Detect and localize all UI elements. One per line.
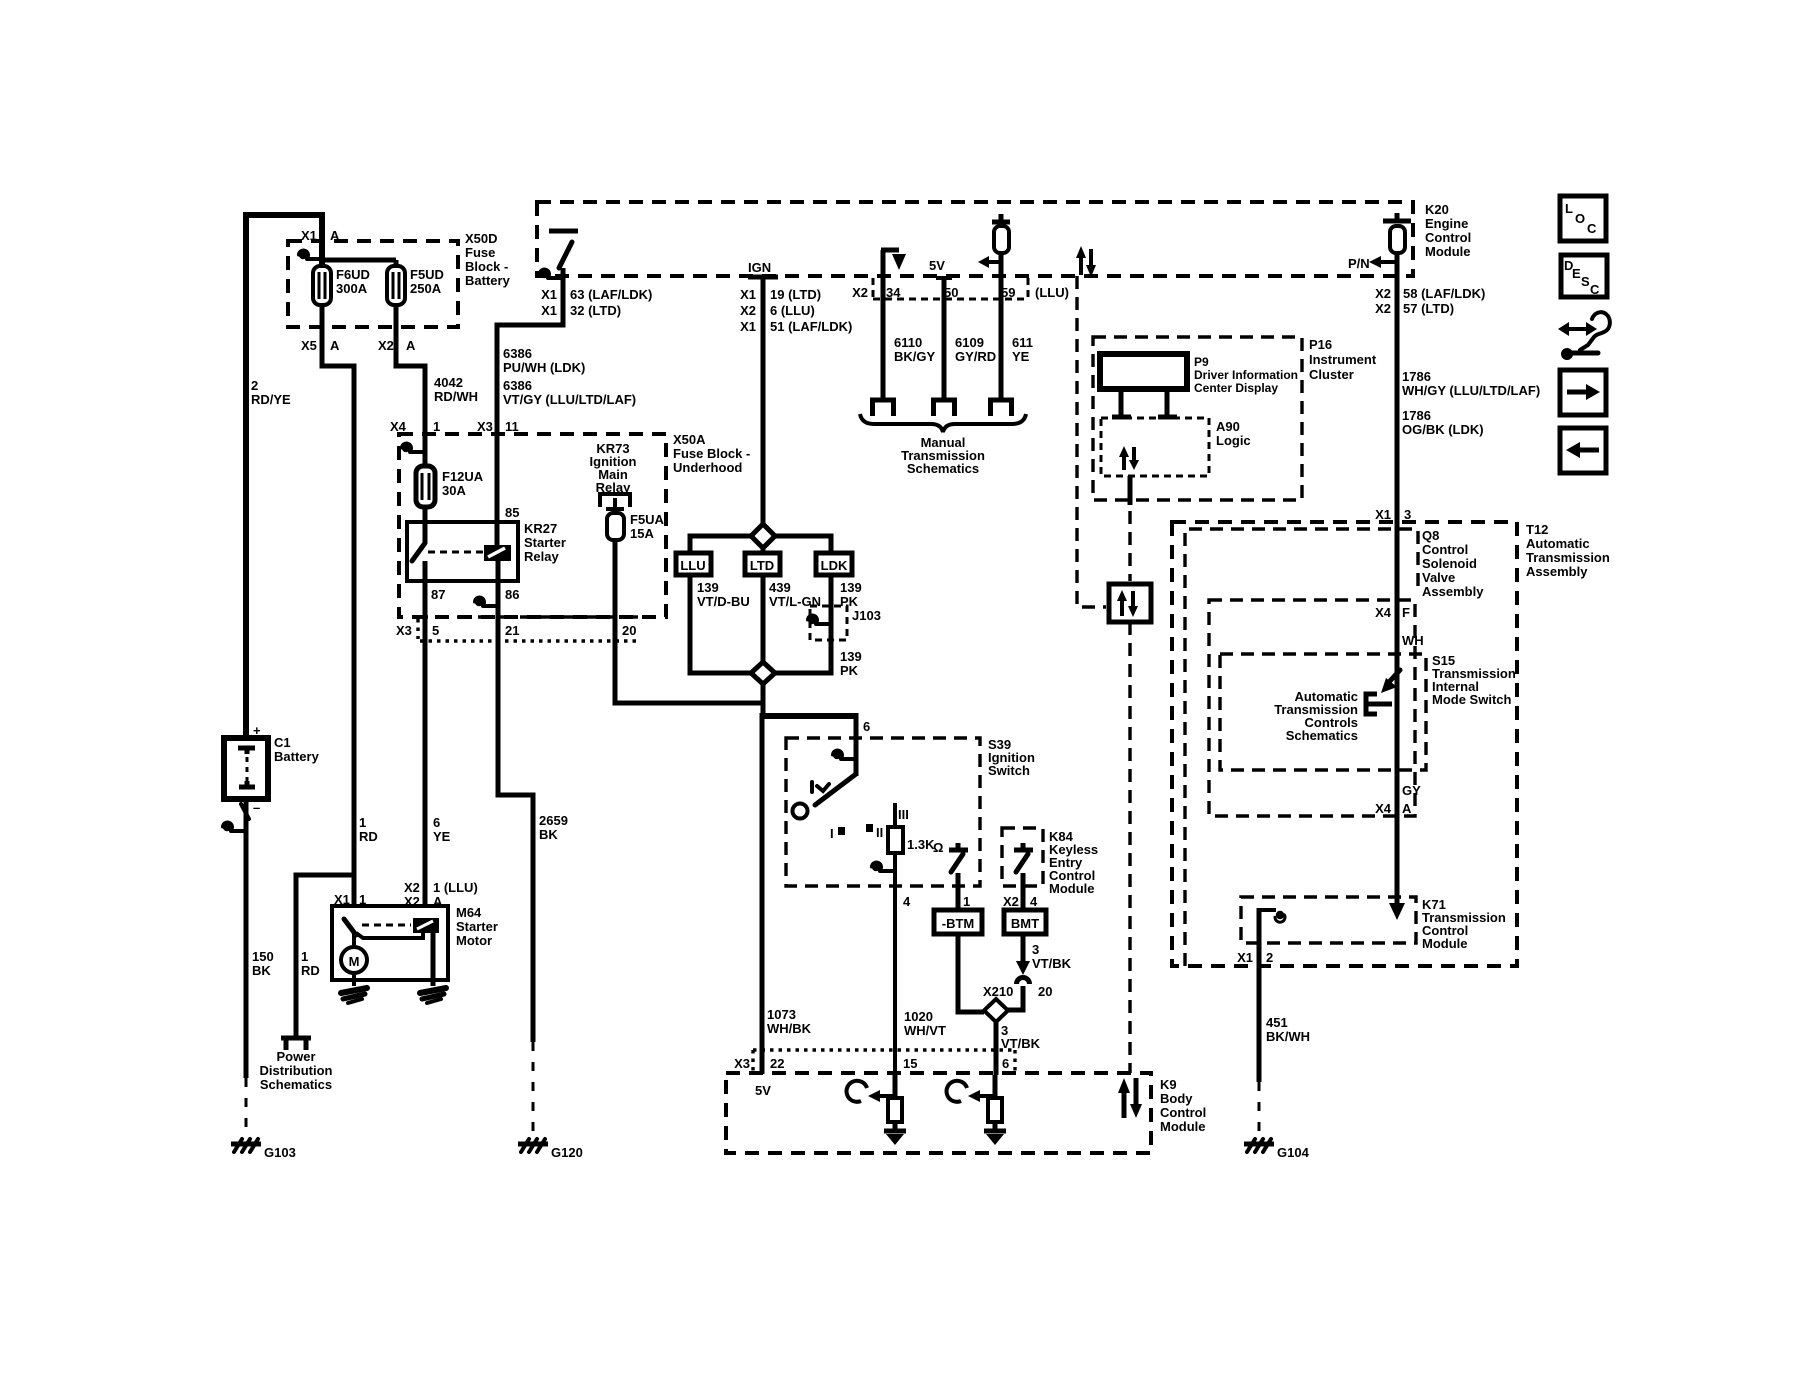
ground G120 (532, 1042, 535, 1137)
svg-text:WH: WH (1402, 633, 1424, 648)
starter solenoid output ground (431, 933, 436, 986)
terminal BMT (1004, 910, 1046, 934)
svg-text:X2: X2 (1003, 894, 1019, 909)
svg-text:A: A (1402, 801, 1412, 816)
svg-text:Solenoid: Solenoid (1422, 556, 1477, 571)
svg-text:Power: Power (276, 1049, 315, 1064)
svg-text:Schematics: Schematics (1286, 728, 1358, 743)
svg-text:A: A (433, 894, 443, 909)
switch S39 dashed box (786, 738, 980, 886)
svg-text:WH/VT: WH/VT (904, 1023, 946, 1038)
svg-text:G104: G104 (1277, 1145, 1310, 1160)
module P16 instrument cluster dashed box (1093, 337, 1302, 500)
svg-text:YE: YE (1012, 349, 1030, 364)
off-page bracket power distribution (281, 1038, 311, 1050)
svg-text:85: 85 (505, 505, 519, 520)
pin 59 left arrow (986, 260, 1001, 264)
svg-text:A90: A90 (1216, 419, 1240, 434)
svg-text:Cluster: Cluster (1309, 367, 1354, 382)
branch wires to fuses (690, 536, 751, 553)
svg-text:250A: 250A (410, 281, 442, 296)
svg-text:X1: X1 (740, 319, 756, 334)
wire 6 YE pin87 to starter solenoid (423, 561, 428, 908)
svg-text:III: III (898, 807, 909, 822)
svg-text:1: 1 (359, 815, 366, 830)
wire 611 YE pin 59 (999, 253, 1004, 399)
svg-text:21: 21 (505, 623, 519, 638)
BCM pin6 input element (977, 1094, 995, 1098)
svg-text:Fuse: Fuse (465, 245, 495, 260)
S39 resistor 1.3K (893, 803, 897, 827)
dashed wire (LLU) path from ECM (1077, 276, 1106, 607)
fuse block X50D dashed box (288, 241, 458, 327)
svg-text:150: 150 (252, 949, 274, 964)
svg-text:34: 34 (886, 285, 901, 300)
svg-text:1: 1 (359, 892, 366, 907)
svg-text:VT/BK: VT/BK (1001, 1036, 1041, 1051)
svg-text:X1: X1 (541, 287, 557, 302)
relay KR27 switch blade (412, 543, 425, 561)
ECM pin 34 elbow arrow (881, 250, 899, 277)
terminal -BTM (934, 910, 982, 934)
wire battery feed top horizontal (246, 212, 322, 218)
fuse block X50A dashed box (399, 434, 666, 617)
svg-text:611: 611 (1012, 335, 1033, 350)
ECM internal switch (549, 229, 578, 234)
svg-text:C1: C1 (274, 735, 291, 750)
svg-text:X50A: X50A (673, 432, 706, 447)
wire 6386 coil feed from ECM (497, 268, 563, 545)
svg-text:G120: G120 (551, 1145, 583, 1160)
fuse F5UD 250A (387, 266, 405, 305)
svg-text:6109: 6109 (955, 335, 984, 350)
splice curl at X1 feed (299, 250, 323, 259)
svg-text:F6UD: F6UD (336, 267, 370, 282)
svg-text:X3: X3 (477, 419, 493, 434)
svg-text:+: + (253, 723, 261, 738)
splice diamond X210 (984, 999, 1008, 1022)
S15 contact bracket (1366, 694, 1377, 714)
svg-text:Ω: Ω (933, 840, 943, 855)
svg-text:5: 5 (432, 623, 439, 638)
ECM pin 59 fuse element (992, 214, 1010, 222)
svg-text:1786: 1786 (1402, 369, 1431, 384)
relay KR27 contact dashed (428, 551, 484, 554)
svg-text:3: 3 (1404, 507, 1411, 522)
svg-text:1073: 1073 (767, 1007, 796, 1022)
svg-text:Automatic: Automatic (1526, 536, 1590, 551)
BCM page arrows (1124, 1078, 1136, 1118)
junction diamond upper (751, 524, 775, 548)
svg-text:51 (LAF/LDK): 51 (LAF/LDK) (770, 319, 852, 334)
svg-text:32 (LTD): 32 (LTD) (570, 303, 621, 318)
svg-text:OG/BK (LDK): OG/BK (LDK) (1402, 422, 1484, 437)
svg-text:G103: G103 (264, 1145, 296, 1160)
svg-text:6: 6 (433, 815, 440, 830)
svg-text:VT/BK: VT/BK (1032, 956, 1072, 971)
wire from -BTM to splice (958, 934, 984, 1012)
svg-text:LLU: LLU (680, 558, 705, 573)
svg-text:57 (LTD): 57 (LTD) (1403, 301, 1454, 316)
svg-text:X1: X1 (541, 303, 557, 318)
branch to power distribution schematics (296, 875, 354, 1036)
svg-text:M64: M64 (456, 905, 482, 920)
svg-text:(LLU): (LLU) (1035, 285, 1069, 300)
X4 connector dashed box (1209, 600, 1415, 816)
svg-text:YE: YE (433, 829, 451, 844)
svg-text:Switch: Switch (988, 763, 1030, 778)
svg-text:X2: X2 (378, 338, 394, 353)
module T12 automatic transmission assembly dashed box (1172, 522, 1517, 966)
svg-text:BK: BK (252, 963, 271, 978)
svg-text:15A: 15A (630, 526, 654, 541)
svg-text:RD: RD (359, 829, 378, 844)
svg-text:2659: 2659 (539, 813, 568, 828)
wire 6 into ignition switch (854, 713, 859, 776)
module A90 logic dashed box (1101, 418, 1209, 476)
K71 ground output with curl (1257, 908, 1262, 1082)
svg-text:139: 139 (840, 580, 862, 595)
svg-text:Mode Switch: Mode Switch (1432, 692, 1512, 707)
wire F5UA output to junction (615, 540, 762, 703)
switch S15 transmission internal mode switch dashed box (1220, 654, 1426, 770)
svg-text:C: C (1590, 282, 1600, 297)
svg-text:Body: Body (1160, 1091, 1193, 1106)
brace manual transmission schematics (860, 414, 1026, 432)
serial data link box with arrows (1109, 584, 1151, 622)
relay KR73 coil symbol (600, 494, 630, 507)
fuse LTD (745, 553, 780, 575)
svg-text:X3: X3 (734, 1056, 750, 1071)
svg-text:20: 20 (622, 623, 636, 638)
svg-text:Starter: Starter (524, 535, 566, 550)
svg-text:RD: RD (301, 963, 320, 978)
svg-text:Distribution: Distribution (260, 1063, 333, 1078)
wire 86 to ground jog (498, 561, 533, 1042)
svg-text:GY: GY (1402, 783, 1421, 798)
starter solenoid contact box (413, 918, 439, 933)
display P9 driver information center (1100, 354, 1187, 389)
svg-text:K20: K20 (1425, 202, 1449, 217)
svg-text:F: F (1402, 605, 1410, 620)
junction J103 (810, 606, 847, 640)
svg-text:6: 6 (1002, 1056, 1009, 1071)
svg-text:X2: X2 (1375, 286, 1391, 301)
svg-text:Q8: Q8 (1422, 528, 1439, 543)
relay KR27 coil (484, 545, 511, 561)
svg-text:X1: X1 (1237, 950, 1253, 965)
module K20 engine control module dashed box (537, 202, 1413, 276)
wire jumper to F5UD (322, 258, 396, 263)
svg-text:Driver Information: Driver Information (1194, 368, 1298, 382)
svg-text:63 (LAF/LDK): 63 (LAF/LDK) (570, 287, 652, 302)
battery C1 (224, 738, 268, 799)
svg-text:–: – (253, 800, 260, 815)
svg-text:A: A (406, 338, 416, 353)
svg-text:L: L (1565, 201, 1573, 216)
module K9 body control module dashed box (726, 1073, 1151, 1153)
svg-text:X2: X2 (404, 880, 420, 895)
svg-text:PU/WH (LDK): PU/WH (LDK) (503, 360, 585, 375)
svg-text:6386: 6386 (503, 346, 532, 361)
svg-text:86: 86 (505, 587, 519, 602)
svg-text:X5: X5 (301, 338, 317, 353)
svg-text:20: 20 (1038, 984, 1052, 999)
svg-text:30A: 30A (442, 483, 466, 498)
starter motor M circle (341, 947, 367, 973)
connector sub-row X2 34 50 59 (LLU) (873, 278, 1028, 299)
svg-text:5V: 5V (755, 1083, 771, 1098)
K84 BMT switch (1014, 843, 1033, 850)
S15 wiper blade and arrow (1395, 660, 1400, 672)
svg-text:Logic: Logic (1216, 433, 1251, 448)
svg-text:X210: X210 (983, 984, 1013, 999)
svg-text:LDK: LDK (821, 558, 848, 573)
svg-text:Starter: Starter (456, 919, 498, 934)
wire 3 VT/BK from BMT (1021, 934, 1026, 961)
module Q8 control solenoid valve assembly dashed box (1185, 529, 1418, 966)
wire 139 PK (775, 575, 831, 673)
svg-text:Fuse Block -: Fuse Block - (673, 446, 750, 461)
svg-text:1: 1 (963, 894, 970, 909)
svg-text:RD/WH: RD/WH (434, 389, 478, 404)
svg-text:VT/D-BU: VT/D-BU (697, 594, 750, 609)
svg-text:PK: PK (840, 594, 859, 609)
svg-text:Control: Control (1425, 230, 1471, 245)
svg-text:15: 15 (903, 1056, 917, 1071)
starter motor ground (352, 973, 356, 986)
splice curl on F12UA feed (402, 443, 426, 452)
fuse F5UA 15A (607, 513, 624, 540)
svg-text:Center Display: Center Display (1194, 381, 1278, 395)
svg-text:Engine: Engine (1425, 216, 1468, 231)
starter contact dashed (362, 924, 411, 927)
svg-text:M: M (349, 954, 360, 969)
wire X1-A feed into fuse block (319, 212, 325, 267)
fuse F6UD 300A (313, 266, 331, 305)
svg-text:6386: 6386 (503, 378, 532, 393)
svg-text:BK/GY: BK/GY (894, 349, 936, 364)
arrow into K71 (1389, 903, 1405, 920)
svg-text:X2: X2 (1375, 301, 1391, 316)
svg-text:S: S (1581, 274, 1590, 289)
svg-text:BMT: BMT (1011, 916, 1039, 931)
S39 BTM switch (949, 843, 968, 850)
icon DESC button (1561, 255, 1607, 297)
svg-text:Schematics: Schematics (260, 1077, 332, 1092)
svg-text:KR27: KR27 (524, 521, 557, 536)
svg-text:E: E (1572, 266, 1581, 281)
svg-text:T12: T12 (1526, 522, 1548, 537)
battery negative wire 150 BK (244, 799, 249, 1078)
relay KR27 box (407, 522, 518, 581)
fuse F12UA 30A (416, 466, 435, 507)
svg-text:6: 6 (863, 719, 870, 734)
svg-text:4042: 4042 (434, 375, 463, 390)
svg-text:2: 2 (1266, 950, 1273, 965)
svg-text:4: 4 (1030, 894, 1038, 909)
svg-text:300A: 300A (336, 281, 368, 296)
module K71 transmission control module dashed box (1241, 897, 1416, 943)
junction diamond lower (751, 662, 775, 684)
svg-text:RD/YE: RD/YE (251, 392, 291, 407)
ground G104 (1258, 1082, 1261, 1137)
wire 139 VT/D-BU (690, 575, 751, 673)
svg-text:1: 1 (433, 419, 440, 434)
svg-text:VT/GY (LLU/LTD/LAF): VT/GY (LLU/LTD/LAF) (503, 392, 636, 407)
svg-text:X2: X2 (404, 894, 420, 909)
svg-text:O: O (1575, 211, 1585, 226)
svg-text:Module: Module (1049, 881, 1095, 896)
svg-text:5V: 5V (929, 258, 945, 273)
icon back arrow button (1560, 428, 1606, 473)
relay KR27 feed into box (423, 507, 428, 543)
svg-text:Schematics: Schematics (907, 461, 979, 476)
svg-text:C: C (1587, 221, 1597, 236)
wire 6109 GY/RD pin 50 (942, 278, 947, 399)
svg-text:Module: Module (1425, 244, 1471, 259)
svg-text:Control: Control (1160, 1105, 1206, 1120)
svg-text:50: 50 (944, 285, 958, 300)
svg-text:BK/WH: BK/WH (1266, 1029, 1310, 1044)
wire 1 RD from F6UD to starter (322, 305, 354, 908)
ECM page arrows (1081, 249, 1091, 275)
svg-text:Underhood: Underhood (673, 460, 742, 475)
svg-text:F5UD: F5UD (410, 267, 444, 282)
svg-text:P/N: P/N (1348, 256, 1370, 271)
svg-text:LTD: LTD (750, 558, 774, 573)
S39 rotary blade (815, 774, 856, 805)
svg-text:IGN: IGN (748, 260, 771, 275)
icon LOC button (1560, 196, 1606, 241)
svg-text:F5UA: F5UA (630, 512, 665, 527)
svg-text:Block -: Block - (465, 259, 508, 274)
svg-text:P16: P16 (1309, 337, 1332, 352)
svg-text:6 (LLU): 6 (LLU) (770, 303, 815, 318)
wire 1786 trans range signal (1395, 253, 1400, 906)
svg-text:Motor: Motor (456, 933, 492, 948)
svg-text:X1: X1 (334, 892, 350, 907)
wire 3 VT/BK to BCM (994, 1022, 999, 1075)
svg-text:Relay: Relay (596, 480, 631, 495)
connector row X3 5 21 20 (415, 615, 641, 618)
svg-text:GY/RD: GY/RD (955, 349, 996, 364)
svg-text:6110: 6110 (894, 335, 922, 350)
A90 page arrows (1124, 447, 1134, 470)
svg-text:Assembly: Assembly (1422, 584, 1484, 599)
svg-text:87: 87 (431, 587, 445, 602)
svg-text:X2: X2 (852, 285, 868, 300)
svg-text:Battery: Battery (274, 749, 320, 764)
svg-text:59: 59 (1001, 285, 1015, 300)
fuse LLU (676, 553, 711, 575)
icon trace squiggle (1565, 327, 1590, 331)
svg-text:J103: J103 (852, 608, 881, 623)
wire IGN feed (761, 277, 766, 526)
svg-text:X50D: X50D (465, 231, 498, 246)
svg-text:2: 2 (251, 378, 258, 393)
svg-text:58 (LAF/LDK): 58 (LAF/LDK) (1403, 286, 1485, 301)
svg-text:4: 4 (903, 894, 911, 909)
svg-text:BK: BK (539, 827, 558, 842)
svg-text:11: 11 (505, 419, 519, 434)
svg-text:Valve: Valve (1422, 570, 1455, 585)
svg-text:Battery: Battery (465, 273, 511, 288)
svg-text:K9: K9 (1160, 1077, 1177, 1092)
wire 6110 BK/GY pin 34 (881, 277, 886, 399)
fuse LDK (816, 553, 852, 575)
svg-text:1786: 1786 (1402, 408, 1431, 423)
svg-text:22: 22 (770, 1056, 784, 1071)
svg-text:-BTM: -BTM (942, 916, 975, 931)
svg-text:X4: X4 (1375, 605, 1392, 620)
svg-text:Transmission: Transmission (1526, 550, 1610, 565)
svg-text:X1: X1 (1375, 507, 1391, 522)
A90 output stub (1128, 476, 1133, 505)
svg-text:PK: PK (840, 663, 859, 678)
BCM connector row X3 22 15 6 (753, 1050, 1015, 1073)
svg-text:Assembly: Assembly (1526, 564, 1588, 579)
wire junction to S39 and BCM (761, 684, 766, 716)
svg-text:Module: Module (1422, 936, 1468, 951)
svg-text:I: I (830, 826, 834, 841)
svg-text:Relay: Relay (524, 549, 559, 564)
icon next arrow button (1560, 370, 1606, 415)
svg-text:X1: X1 (740, 287, 756, 302)
module K84 keyless entry dashed box (1002, 828, 1043, 886)
svg-text:Module: Module (1160, 1119, 1206, 1134)
svg-text:WH/BK: WH/BK (767, 1021, 812, 1036)
svg-text:X2: X2 (740, 303, 756, 318)
svg-text:II: II (876, 825, 883, 840)
svg-text:WH/GY (LLU/LTD/LAF): WH/GY (LLU/LTD/LAF) (1402, 383, 1540, 398)
svg-text:139: 139 (697, 580, 719, 595)
svg-text:A: A (330, 338, 340, 353)
svg-text:451: 451 (1266, 1015, 1288, 1030)
ECM pin fuse element for P/N output (1383, 213, 1411, 221)
inline connector X210 pin 20 curl (1017, 978, 1030, 984)
ground G103 (245, 1078, 248, 1137)
svg-text:X4: X4 (1375, 801, 1392, 816)
svg-text:P9: P9 (1194, 355, 1209, 369)
svg-text:X3: X3 (396, 623, 412, 638)
starter motor M64 box (332, 906, 448, 980)
svg-text:1.3K: 1.3K (907, 837, 935, 852)
svg-text:Instrument: Instrument (1309, 352, 1377, 367)
svg-text:F12UA: F12UA (442, 469, 484, 484)
svg-text:3: 3 (1032, 942, 1039, 957)
wire 4042 RD/WH from F5UD to F12UA (396, 305, 425, 468)
svg-text:1 (LLU): 1 (LLU) (433, 880, 478, 895)
svg-text:439: 439 (769, 580, 791, 595)
wire 439 VT/L-GN (761, 575, 766, 662)
svg-text:Control: Control (1422, 542, 1468, 557)
splice curl on 86 wire (475, 597, 499, 606)
starter switch blade (344, 919, 356, 935)
svg-text:X4: X4 (390, 419, 407, 434)
svg-text:1020: 1020 (904, 1009, 933, 1024)
starter internal wiring (356, 933, 423, 938)
svg-text:19 (LTD): 19 (LTD) (770, 287, 821, 302)
svg-text:1: 1 (301, 949, 308, 964)
svg-text:139: 139 (840, 649, 862, 664)
wire battery positive vertical (243, 212, 249, 738)
BCM pin15 input element (877, 1094, 895, 1098)
